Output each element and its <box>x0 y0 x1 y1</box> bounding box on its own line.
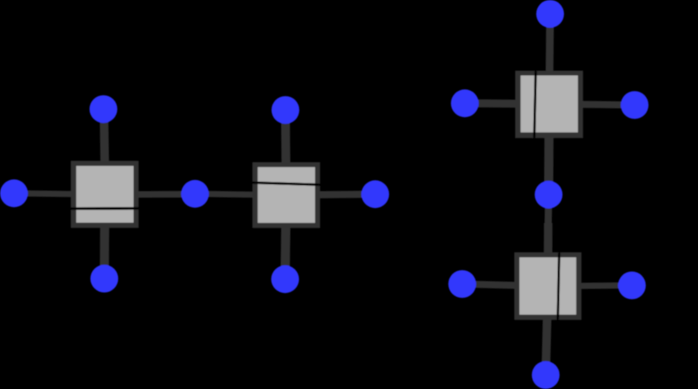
wire N1-X1 <box>104 109 105 194</box>
wire N5-X2 <box>281 110 291 195</box>
node N6 <box>271 265 299 293</box>
wire X2-N7 <box>286 191 375 199</box>
divider X1 <box>71 207 139 210</box>
node N2 <box>0 179 28 207</box>
wire X1-N4 <box>105 191 195 198</box>
block X1 <box>71 161 139 228</box>
wire N2-X1 <box>14 193 105 194</box>
wire X4-N13 <box>548 282 632 289</box>
block X2 <box>252 162 320 228</box>
node N10 <box>621 91 649 119</box>
node N11 <box>535 181 563 209</box>
node N4 <box>181 180 209 208</box>
wire N4-X2 <box>195 194 286 195</box>
node N8 <box>536 0 564 28</box>
divider X4 <box>558 252 559 320</box>
wire X2-N6 <box>285 195 286 279</box>
node N3 <box>90 265 118 293</box>
node N5 <box>272 96 300 124</box>
node N9 <box>451 89 479 117</box>
wire N11-X4 lower <box>544 223 553 286</box>
node N1 <box>90 95 118 123</box>
divider X3 <box>534 71 535 138</box>
node N12 <box>448 270 476 298</box>
node N13 <box>618 272 646 300</box>
wire X3-N11 <box>544 104 554 195</box>
wire N11-X4 upper <box>545 195 553 224</box>
wire X4-N14 <box>546 286 548 375</box>
node N7 <box>361 180 389 208</box>
wire N9-X3 <box>465 99 549 108</box>
divider X2 <box>252 183 320 185</box>
block X3 <box>515 71 583 138</box>
wire X1-N3 <box>100 194 110 278</box>
wire X3-N10 <box>549 104 634 105</box>
wire N8-X3 <box>545 14 554 104</box>
node N14 <box>532 361 560 389</box>
wire N12-X4 <box>462 284 548 286</box>
block X4 <box>514 252 581 320</box>
